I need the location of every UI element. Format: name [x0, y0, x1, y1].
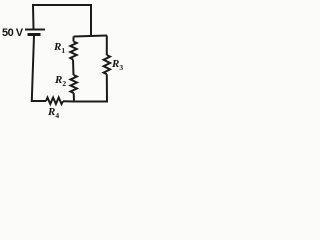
label R1 — [53, 41, 64, 55]
wire R4 to junction — [63, 100, 74, 102]
label R2 — [55, 74, 66, 88]
node T junction bar — [74, 36, 108, 37]
wire R3 to bottom-right corner — [74, 74, 107, 101]
resistor R4 — [46, 98, 63, 105]
resistor R3 — [104, 55, 110, 74]
wire R1 to R2 — [72, 60, 75, 76]
label R3 — [111, 58, 122, 72]
wire battery negative to bottom-left corner — [32, 36, 46, 102]
battery V1 bottom plate — [28, 33, 41, 36]
wire stub to R1 — [73, 37, 75, 42]
resistor R2 — [71, 75, 77, 93]
battery V1 top plate — [25, 29, 45, 31]
label 50 V — [1, 27, 22, 39]
wire top from battery to top-right corner — [33, 5, 91, 36]
wire T to R3 — [106, 36, 108, 56]
resistor R1 — [70, 42, 76, 60]
label R4 — [47, 106, 58, 120]
wire R2 to bottom — [73, 93, 75, 102]
